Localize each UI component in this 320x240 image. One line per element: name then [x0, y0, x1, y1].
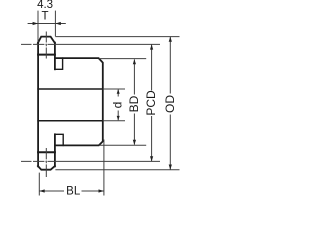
bore top line	[38, 88, 103, 90]
BL arrow left	[39, 189, 44, 192]
svg-text:T: T	[41, 10, 48, 22]
OD bottom extension line	[55, 169, 179, 171]
top tooth profile	[38, 37, 55, 43]
bottom pitch line (PCD extension)	[21, 160, 160, 162]
top root line	[38, 54, 55, 56]
T arrow right (pointing left at x=55.4)	[55, 22, 60, 25]
BL left extension line	[38, 173, 40, 196]
PCD arrow top	[150, 44, 153, 49]
d arrow top	[117, 89, 120, 94]
bottom tooth profile	[38, 166, 55, 170]
T dimension line	[28, 23, 66, 25]
plate right face lower segment	[54, 134, 56, 166]
d arrow bottom	[117, 116, 120, 121]
top tooth vertical centerline	[45, 32, 47, 59]
BD top extension line	[99, 58, 146, 60]
svg-text:d: d	[111, 102, 125, 109]
top weld groove	[55, 58, 63, 69]
bore bottom line	[38, 120, 103, 122]
BD bottom extension line	[99, 144, 146, 146]
PCD arrow bottom	[150, 156, 153, 161]
bottom tooth vertical centerline	[45, 148, 47, 177]
BD arrow bottom	[133, 140, 136, 145]
T extension line right	[54, 11, 56, 37]
d top extension line	[103, 88, 125, 90]
OD dimension line	[169, 37, 171, 170]
svg-text:OD: OD	[163, 95, 177, 113]
OD arrow bottom	[169, 165, 172, 170]
T extension line left	[37, 11, 39, 42]
hub outline	[55, 58, 103, 145]
plate right face upper segment	[54, 43, 56, 70]
BD dimension line	[133, 59, 135, 144]
BL dimension line	[39, 190, 104, 192]
svg-text:BL: BL	[66, 186, 81, 198]
plate left face	[37, 43, 39, 167]
BD arrow top	[133, 59, 136, 64]
d dimension line	[117, 90, 119, 121]
OD arrow top	[169, 37, 172, 42]
top pitch line (PCD extension)	[21, 43, 160, 45]
BL right extension line	[103, 140, 105, 196]
OD top extension line	[55, 36, 179, 38]
svg-text:BD: BD	[127, 95, 141, 112]
BL arrow right	[99, 189, 104, 192]
d bottom extension line	[103, 120, 125, 122]
svg-text:4.3: 4.3	[37, 0, 53, 11]
bottom root line	[38, 151, 55, 153]
svg-text:PCD: PCD	[144, 90, 158, 116]
PCD dimension line	[151, 44, 153, 161]
bottom weld groove	[55, 134, 63, 145]
T arrow left (pointing right at x=38)	[33, 22, 38, 25]
